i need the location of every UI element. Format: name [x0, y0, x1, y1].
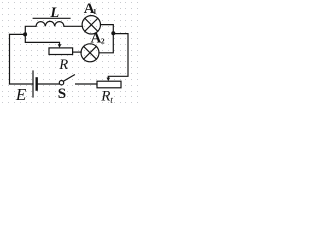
wire: junction J1 up to inductor branch: [25, 26, 36, 34]
svg-text:S: S: [58, 86, 66, 102]
wire: junction J1 down to resistor R slider: [25, 34, 59, 44]
battery E short plate: [36, 78, 38, 89]
svg-text:R: R: [58, 57, 68, 73]
rheostat Rt box: [97, 81, 121, 88]
junction dot J2: [111, 31, 115, 35]
lamp A1 cross: [85, 18, 98, 31]
lamp A2 circle: [81, 44, 99, 62]
wire: J2 to right rail, down, and over to rheostat slider: [108, 34, 128, 78]
wire: lamp A1 to junction J2: [101, 25, 114, 34]
switch S lever: [63, 75, 74, 82]
svg-text:E: E: [15, 85, 27, 104]
svg-text:1: 1: [93, 7, 97, 16]
lamp A2 cross: [84, 46, 97, 59]
svg-text:L: L: [49, 5, 59, 21]
svg-text:2: 2: [101, 37, 105, 46]
wire: coil to lamp A1: [64, 25, 83, 27]
svg-text:t: t: [110, 96, 113, 106]
junction dot J1: [23, 32, 27, 36]
resistor R box: [49, 48, 73, 55]
inductor L core line: [33, 17, 70, 19]
wire: battery left lead: [10, 83, 34, 85]
wire: resistor R to lamp A2: [73, 51, 82, 53]
wire: switch to rheostat: [76, 83, 97, 85]
wire: battery to switch: [37, 83, 60, 85]
inductor L coil: [36, 21, 64, 26]
arrowhead onto rheostat Rt: [107, 78, 111, 82]
lamp A1 circle: [82, 16, 100, 34]
wire: left rail top horizontal to junction J1: [10, 33, 26, 35]
battery E long plate: [32, 71, 34, 97]
svg-text:R: R: [100, 88, 110, 104]
wire: left rail vertical: [9, 34, 11, 84]
svg-text:A: A: [91, 31, 102, 47]
wire: lamp A2 right up to junction J2: [99, 33, 113, 53]
switch S pivot circle: [59, 81, 63, 85]
arrowhead onto resistor R: [58, 44, 62, 48]
